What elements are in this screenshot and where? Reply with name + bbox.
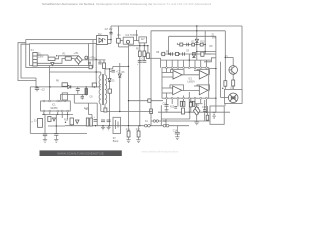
svg-text:Schaltbild der Alarmsirene mit: Schaltbild der Alarmsirene mit Netzteil,…: [42, 2, 211, 6]
svg-text:R16: R16: [126, 130, 131, 132]
svg-text:R17: R17: [136, 130, 141, 132]
svg-text:+C7: +C7: [116, 72, 121, 74]
svg-text:R10: R10: [200, 41, 205, 43]
svg-text:9V: 9V: [113, 138, 116, 140]
svg-text:R12: R12: [170, 107, 175, 109]
svg-text:LS1: LS1: [230, 87, 235, 89]
svg-text:+ B1: + B1: [74, 53, 80, 55]
svg-text:NE556: NE556: [51, 108, 59, 110]
svg-text:WWW.SCHALTUNGSDIENST.DE: WWW.SCHALTUNGSDIENST.DE: [57, 152, 104, 156]
svg-text:C14: C14: [173, 131, 178, 133]
svg-text:5V6: 5V6: [212, 38, 217, 40]
svg-text:C13: C13: [202, 107, 207, 109]
svg-text:+C2: +C2: [41, 90, 46, 92]
svg-text:LM324: LM324: [188, 81, 196, 83]
svg-text:230V: 230V: [38, 56, 44, 58]
svg-text:R15: R15: [64, 120, 69, 122]
svg-text:IC2 TOP224: IC2 TOP224: [126, 35, 139, 37]
svg-text:www.elektronik-kompendium: www.elektronik-kompendium: [142, 150, 179, 154]
svg-text:Block: Block: [113, 141, 119, 143]
svg-text:4x7 1W: 4x7 1W: [105, 29, 114, 31]
svg-text:C1 470µ: C1 470µ: [87, 58, 96, 60]
